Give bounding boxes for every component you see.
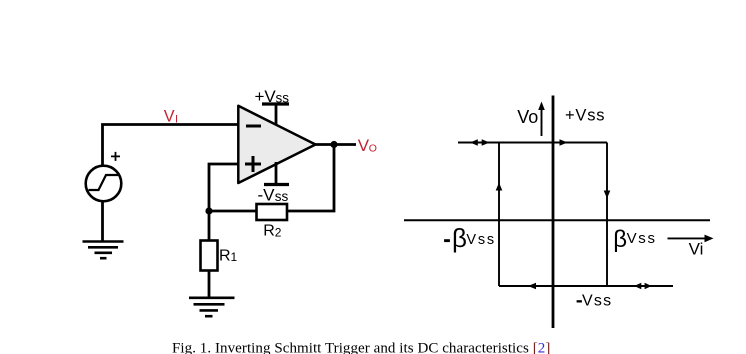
arrowhead right on top line	[560, 139, 568, 146]
svg-text:ss: ss	[276, 90, 290, 105]
hysteresis loop left edge	[498, 143, 500, 287]
Vi axis horizontal	[404, 219, 710, 221]
label beta Vss	[613, 226, 656, 253]
arrowhead left on bottom extension	[634, 283, 641, 290]
feedback wire	[288, 146, 334, 211]
svg-text:O: O	[369, 143, 377, 155]
-Vss power pin	[258, 162, 290, 204]
svg-text:R: R	[219, 247, 231, 264]
+Vss power pin	[255, 87, 290, 125]
op-amp U1	[238, 106, 315, 183]
svg-text:V: V	[164, 107, 175, 125]
svg-text:I: I	[175, 113, 178, 125]
arrowhead left on top extension	[470, 139, 478, 146]
svg-text:2: 2	[275, 225, 282, 239]
svg-text:1: 1	[231, 250, 238, 264]
svg-text:+Vss: +Vss	[565, 107, 605, 125]
wire source to ground	[101, 200, 104, 242]
arrowhead right on bottom extension	[645, 283, 652, 290]
output wire	[315, 143, 357, 146]
hysteresis loop bottom line	[499, 285, 673, 287]
resistor R2	[257, 204, 288, 240]
svg-text:R: R	[263, 223, 275, 240]
svg-text:Vss: Vss	[582, 292, 612, 309]
svg-text:ss: ss	[275, 189, 289, 204]
svg-text:Vo: Vo	[517, 107, 538, 127]
wire R2 to junction	[209, 210, 256, 213]
svg-text:Fig. 1. Inverting Schmitt Trig: Fig. 1. Inverting Schmitt Trigger and it…	[172, 340, 550, 354]
svg-text:-V: -V	[258, 185, 276, 204]
Vo axis vertical	[552, 96, 555, 329]
ground under R1	[189, 298, 235, 316]
resistor R1	[201, 213, 238, 298]
label -Vss	[577, 292, 613, 309]
label -beta Vss	[444, 223, 496, 253]
svg-text:Vss: Vss	[627, 230, 657, 247]
svg-text:+V: +V	[255, 87, 277, 106]
label +Vss	[565, 107, 605, 125]
hysteresis loop right edge	[606, 143, 608, 287]
Vo annotation arrow	[538, 102, 545, 137]
hysteresis loop top line	[458, 142, 607, 144]
ground under source	[83, 242, 124, 259]
arrowhead up on left edge	[496, 183, 503, 191]
label VI	[164, 107, 178, 125]
arrowhead left on bottom line	[528, 283, 536, 290]
arrowhead down on right edge	[604, 191, 611, 199]
label VO	[358, 136, 377, 155]
source V1	[86, 152, 122, 201]
svg-text:Vi: Vi	[689, 240, 704, 259]
svg-text:β: β	[452, 223, 467, 253]
arrowhead right on top extension	[482, 139, 490, 146]
svg-text:β: β	[613, 226, 627, 253]
Vi axis arrow	[668, 235, 714, 243]
junction node	[205, 207, 212, 214]
wire source to inverting input	[103, 125, 239, 168]
wire to non-inverting input	[209, 164, 238, 208]
svg-text:Vss: Vss	[466, 232, 496, 248]
output node	[330, 141, 337, 148]
